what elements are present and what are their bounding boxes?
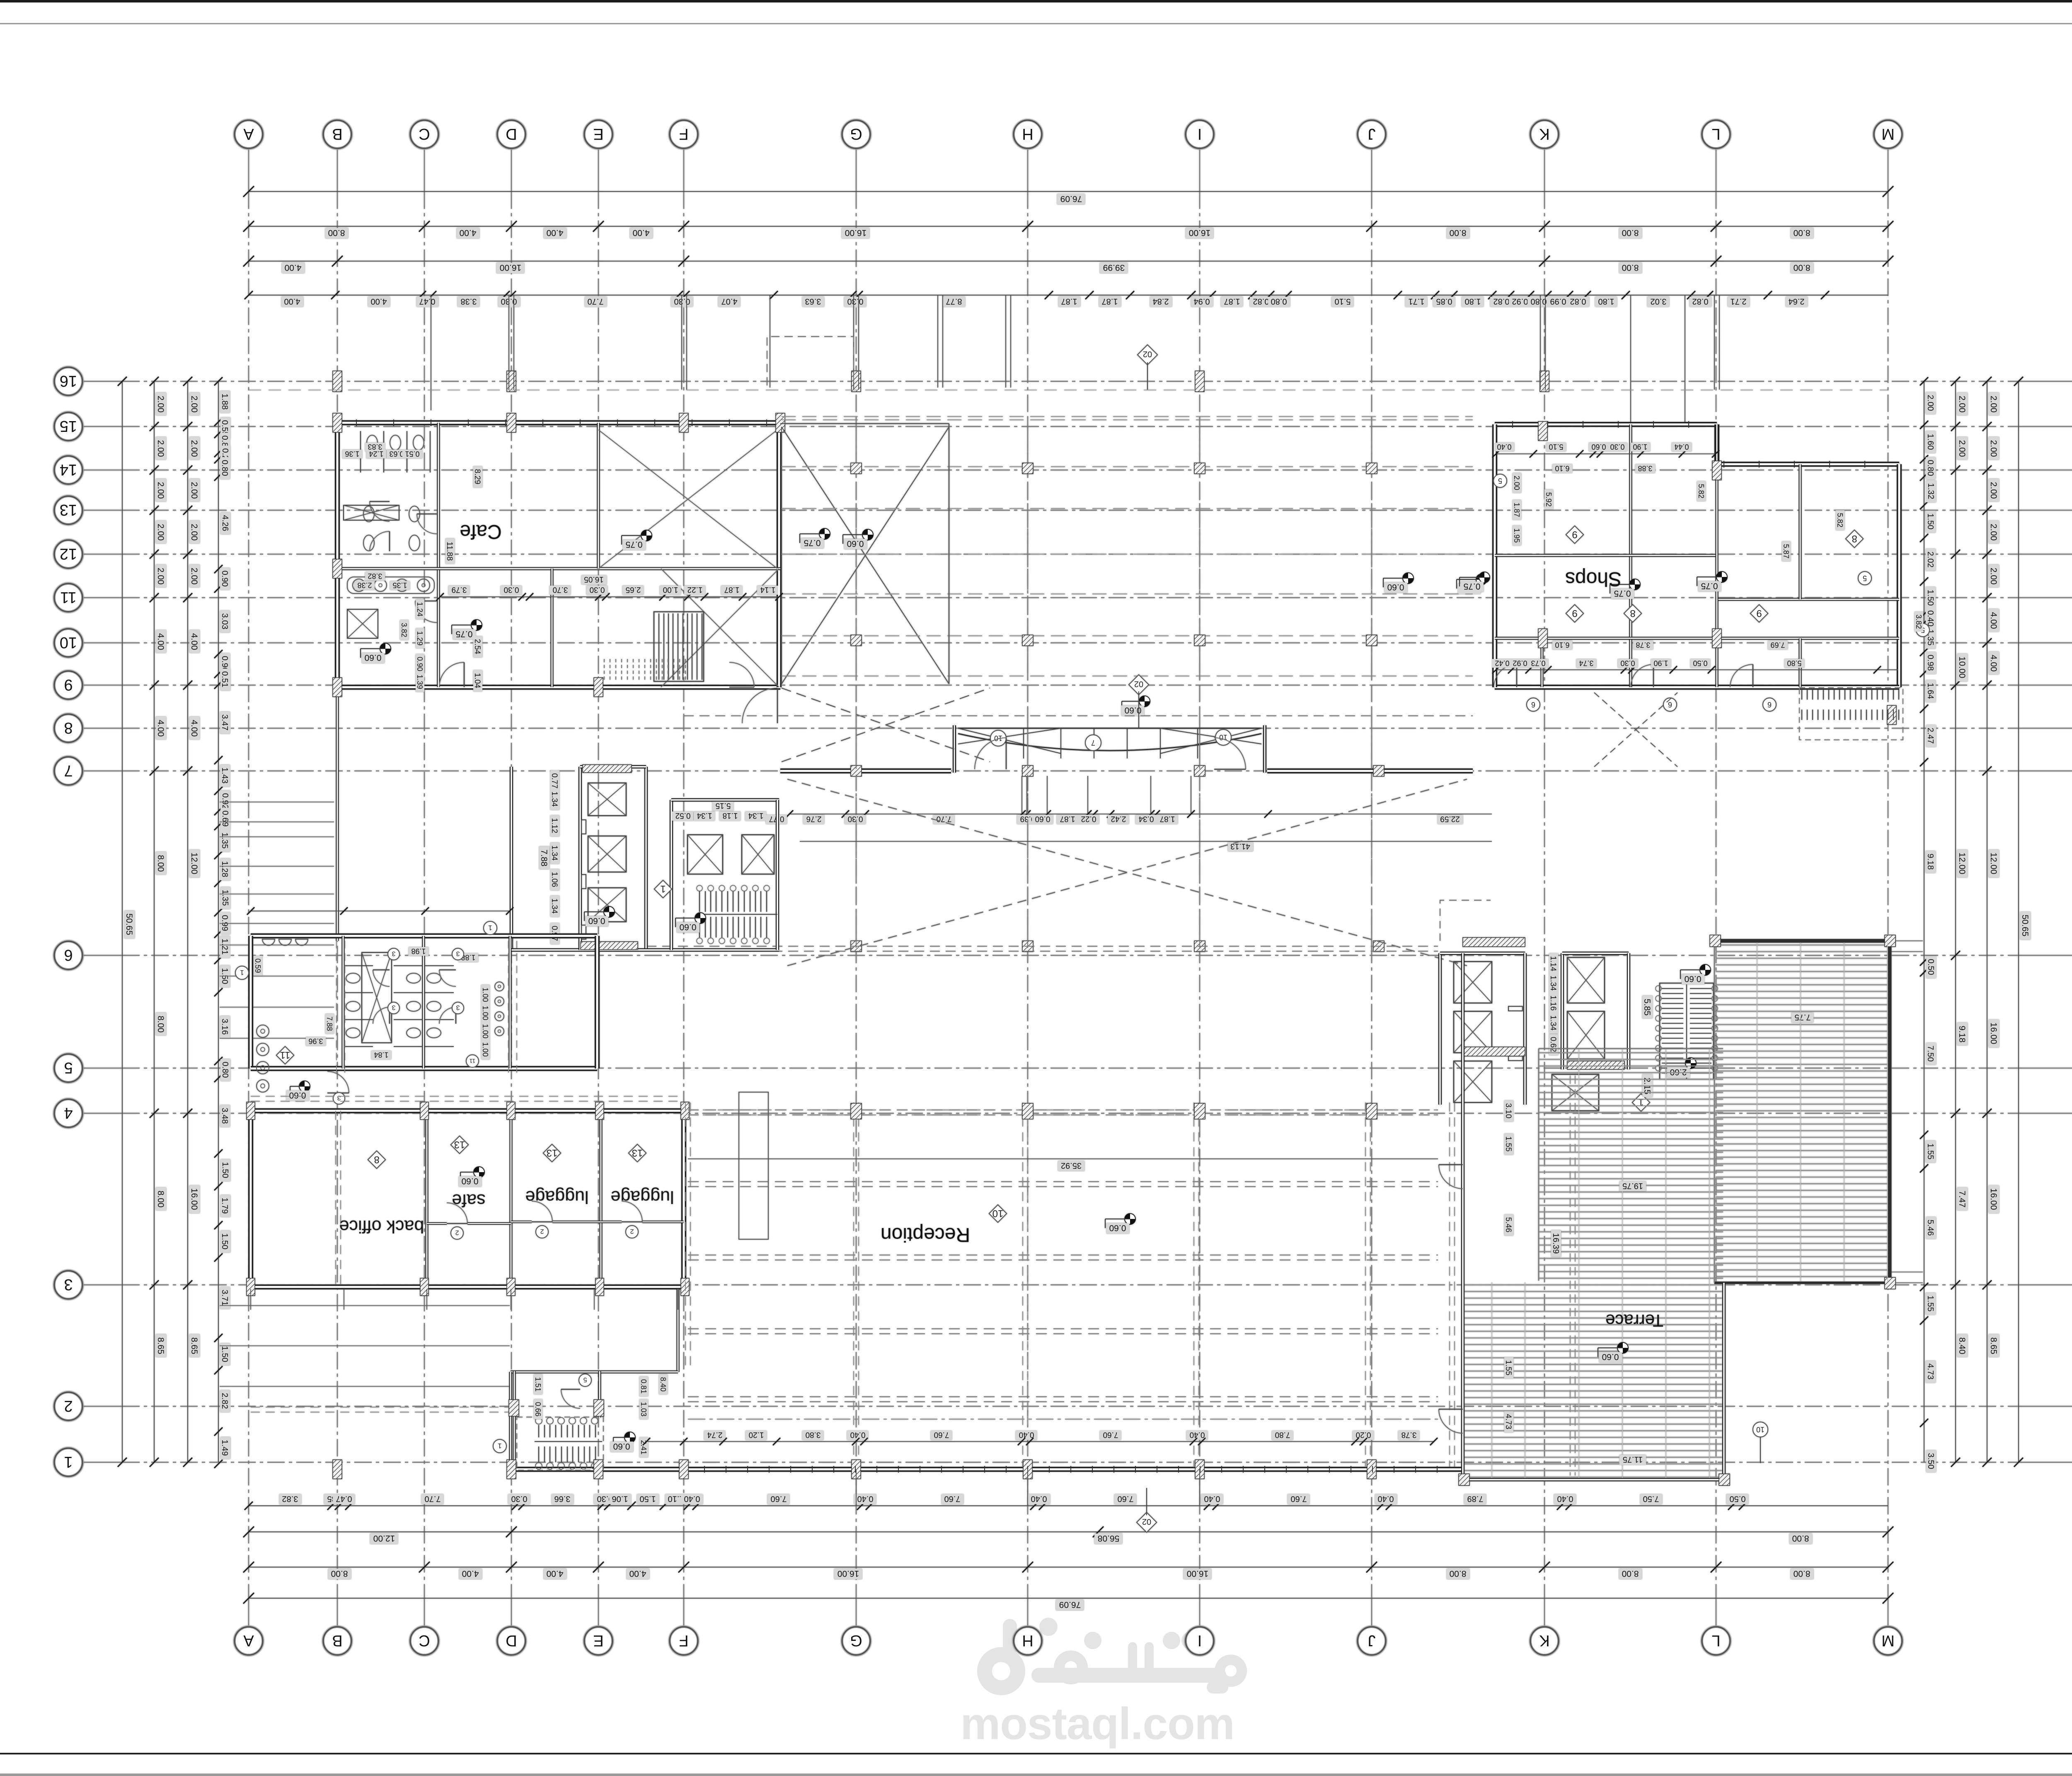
bubble E top xyxy=(584,120,612,148)
bubble 13 left xyxy=(54,496,82,524)
svg-text:0.94: 0.94 xyxy=(1194,297,1210,306)
svg-text:0.40: 0.40 xyxy=(1926,611,1935,627)
svg-text:1.50: 1.50 xyxy=(220,1233,229,1250)
grid line 7 xyxy=(82,770,122,771)
cafe doors on south wall xyxy=(439,662,464,687)
svg-text:3.50: 3.50 xyxy=(1926,1453,1935,1469)
svg-text:1.21: 1.21 xyxy=(220,939,229,955)
right core elevators col2 xyxy=(1561,953,1564,1069)
svg-text:8: 8 xyxy=(374,1154,379,1165)
svg-text:4.00: 4.00 xyxy=(156,633,165,650)
svg-text:0.60: 0.60 xyxy=(1591,443,1606,451)
bubble D bottom xyxy=(497,1627,525,1655)
deck plank joints xyxy=(1757,943,1757,1282)
roof dashed line row 16 xyxy=(249,390,1888,390)
terrace west dashed pair xyxy=(1449,1102,1450,1476)
corridor hatch columns xyxy=(851,1103,862,1119)
svg-text:2.74: 2.74 xyxy=(707,1430,722,1439)
svg-text:1.35: 1.35 xyxy=(220,833,229,849)
svg-text:5.10: 5.10 xyxy=(1549,443,1563,451)
svg-text:7: 7 xyxy=(1091,739,1095,747)
svg-text:0.47: 0.47 xyxy=(336,1494,352,1503)
bubble 4 left xyxy=(54,1099,82,1127)
left core elevators xyxy=(588,783,626,816)
svg-text:7.70: 7.70 xyxy=(588,297,604,306)
svg-text:0.30: 0.30 xyxy=(590,585,605,594)
bubble E bottom xyxy=(584,1627,612,1655)
atrium ceiling dashed grid verticals xyxy=(856,417,857,962)
svg-text:D: D xyxy=(506,125,517,143)
canopy level marker xyxy=(1139,696,1150,707)
svg-text:1.04: 1.04 xyxy=(473,673,482,688)
bubble 16 left xyxy=(54,367,82,395)
svg-text:C: C xyxy=(419,125,430,143)
sheet bottom border bar xyxy=(0,1774,2072,1776)
svg-text:0.22: 0.22 xyxy=(1081,814,1097,823)
svg-text:1.98: 1.98 xyxy=(411,947,426,955)
svg-text:5.10: 5.10 xyxy=(1335,297,1351,306)
grid line 16 xyxy=(82,381,122,382)
svg-text:10.00: 10.00 xyxy=(1957,657,1967,678)
svg-text:11.88: 11.88 xyxy=(445,542,454,561)
svg-text:1.18: 1.18 xyxy=(723,811,738,820)
svg-text:3.96: 3.96 xyxy=(308,1037,323,1045)
office diamonds xyxy=(368,1151,385,1168)
svg-text:8.40: 8.40 xyxy=(659,1377,667,1391)
svg-text:8.00: 8.00 xyxy=(156,855,165,872)
svg-text:0.51: 0.51 xyxy=(220,671,229,688)
gap stair void dashed X xyxy=(782,427,949,684)
svg-text:1.55: 1.55 xyxy=(1504,1360,1513,1376)
cafe level markers xyxy=(641,530,652,541)
svg-text:1.24: 1.24 xyxy=(416,602,424,616)
svg-text:5.82: 5.82 xyxy=(1697,484,1705,498)
sheet top rule xyxy=(0,23,2072,24)
svg-text:14: 14 xyxy=(60,461,77,478)
toilet crossed bench xyxy=(344,505,399,520)
grid line 12 xyxy=(82,554,122,555)
svg-text:7.50: 7.50 xyxy=(1643,1494,1659,1503)
svg-text:16.39: 16.39 xyxy=(1551,1233,1560,1254)
left dimension column 2 xyxy=(154,381,155,1462)
svg-text:13: 13 xyxy=(454,1139,465,1150)
core diamonds and markers xyxy=(654,880,672,898)
office block leaders xyxy=(250,1289,251,1310)
left dim leader lines into building xyxy=(220,802,334,802)
shops internal walls xyxy=(1629,424,1632,687)
toilet stalls room 1 xyxy=(344,965,373,966)
bubble H bottom xyxy=(1014,1627,1042,1655)
svg-text:3: 3 xyxy=(456,1004,460,1011)
bottom-left dashed pair xyxy=(251,1407,510,1408)
svg-text:7.60: 7.60 xyxy=(1291,1494,1307,1503)
sheet top border bar xyxy=(0,0,2072,2)
svg-text:7.60: 7.60 xyxy=(1103,1430,1118,1439)
atrium gap east wall xyxy=(949,424,950,684)
svg-text:2.00: 2.00 xyxy=(156,396,165,413)
svg-text:0.75: 0.75 xyxy=(1464,582,1481,591)
svg-text:D: D xyxy=(506,1632,517,1649)
svg-text:7.88: 7.88 xyxy=(325,1016,334,1031)
svg-text:8.00: 8.00 xyxy=(1794,228,1811,237)
svg-text:1.71: 1.71 xyxy=(1409,297,1425,306)
bubble G top xyxy=(842,120,870,148)
section line 02 top xyxy=(1138,345,1157,365)
svg-text:4.00: 4.00 xyxy=(460,228,477,237)
reception west dashed pair xyxy=(685,1102,686,1368)
grid line 11 xyxy=(82,597,122,598)
svg-text:1.00: 1.00 xyxy=(481,1042,489,1056)
svg-text:8.65: 8.65 xyxy=(1989,1337,1998,1354)
svg-text:8.00: 8.00 xyxy=(1450,1569,1467,1578)
bubble 1 left xyxy=(54,1448,82,1476)
svg-text:0.40: 0.40 xyxy=(1031,1494,1047,1503)
svg-text:76.09: 76.09 xyxy=(1059,1600,1081,1609)
bottom stair walls xyxy=(513,1371,516,1476)
cafe stair UP treads xyxy=(654,612,704,681)
svg-text:M: M xyxy=(1881,125,1895,143)
shops block outer walls xyxy=(1495,422,1717,427)
svg-text:3.16: 3.16 xyxy=(220,1019,229,1035)
left dimension column 3 xyxy=(187,381,188,1462)
grid line F xyxy=(683,148,684,191)
grid line C xyxy=(424,148,425,191)
urinals xyxy=(495,982,504,991)
stair core top dims xyxy=(672,811,693,821)
svg-text:K: K xyxy=(1539,125,1549,143)
svg-text:7.80: 7.80 xyxy=(1275,1430,1290,1439)
svg-text:0.80: 0.80 xyxy=(220,460,229,476)
svg-text:2.00: 2.00 xyxy=(1989,482,1998,499)
svg-text:0.60: 0.60 xyxy=(1109,1223,1126,1233)
svg-text:3.78: 3.78 xyxy=(1636,641,1650,649)
grid line 15 xyxy=(82,426,122,427)
svg-text:3.82: 3.82 xyxy=(1915,614,1923,629)
svg-text:0.60: 0.60 xyxy=(588,916,605,926)
svg-text:0.30: 0.30 xyxy=(848,814,863,823)
svg-text:11.75: 11.75 xyxy=(1623,1455,1643,1464)
svg-text:1.14: 1.14 xyxy=(1549,956,1557,972)
svg-text:Cafe: Cafe xyxy=(460,521,501,543)
atrium dashed boundary lines xyxy=(684,715,1473,716)
bubble A bottom xyxy=(235,1627,263,1655)
office lvl + hatches xyxy=(474,1167,484,1178)
svg-text:2.64: 2.64 xyxy=(1789,297,1805,306)
bubble L bottom xyxy=(1702,1627,1730,1655)
reception floor dashed lines xyxy=(688,1110,1438,1110)
svg-text:0.63: 0.63 xyxy=(389,450,404,458)
stair treads numbered xyxy=(699,891,700,912)
svg-text:2.42: 2.42 xyxy=(1111,814,1126,823)
svg-text:1.88: 1.88 xyxy=(220,394,229,410)
grid line L xyxy=(1716,148,1716,191)
svg-text:2.65: 2.65 xyxy=(626,585,641,594)
office dashed divider xyxy=(335,1111,336,1287)
bubble 10 left xyxy=(54,629,82,657)
svg-text:16.05: 16.05 xyxy=(584,575,604,584)
bubble 3 left xyxy=(54,1271,82,1299)
bubble 9 left xyxy=(54,671,82,699)
svg-text:2.82: 2.82 xyxy=(220,1393,229,1409)
grid line 10 xyxy=(82,642,122,643)
south curtain wall mullions xyxy=(704,1466,705,1473)
svg-text:3.80: 3.80 xyxy=(806,1430,821,1439)
svg-text:7.60: 7.60 xyxy=(771,1494,787,1503)
grid line G xyxy=(856,148,857,191)
shops interior dim rows xyxy=(1494,443,1514,451)
svg-text:0.73: 0.73 xyxy=(1531,659,1545,667)
svg-text:9: 9 xyxy=(1572,608,1577,619)
left dimension column total 50.65 xyxy=(122,381,123,1462)
svg-text:8.00: 8.00 xyxy=(331,1569,348,1578)
bubble H top xyxy=(1014,120,1042,148)
svg-text:4.00: 4.00 xyxy=(462,1569,479,1578)
svg-text:16: 16 xyxy=(60,372,77,390)
svg-text:3.82: 3.82 xyxy=(368,572,382,580)
svg-text:1: 1 xyxy=(660,883,666,894)
svg-text:8.29: 8.29 xyxy=(473,469,482,485)
svg-text:8.00: 8.00 xyxy=(1794,1569,1811,1578)
svg-text:1.55: 1.55 xyxy=(1926,1296,1935,1312)
svg-text:0.50: 0.50 xyxy=(1926,959,1935,975)
svg-text:I: I xyxy=(1198,125,1202,143)
svg-text:Shops: Shops xyxy=(1565,568,1622,590)
svg-text:7.50: 7.50 xyxy=(1926,1046,1935,1062)
grid line 14 xyxy=(82,470,122,470)
svg-text:0.75: 0.75 xyxy=(804,538,821,548)
svg-text:3: 3 xyxy=(337,1094,341,1101)
terrace hatched wall strip xyxy=(1463,1047,1525,1056)
svg-text:4.00: 4.00 xyxy=(547,1569,564,1578)
cafe second void X xyxy=(661,569,779,687)
svg-text:0.30: 0.30 xyxy=(1620,659,1635,667)
svg-text:8.00: 8.00 xyxy=(1794,263,1811,272)
reception markers xyxy=(989,1205,1007,1222)
svg-text:7.70: 7.70 xyxy=(425,1494,441,1503)
svg-text:02: 02 xyxy=(1134,679,1143,688)
svg-text:8: 8 xyxy=(1852,533,1857,544)
svg-text:5: 5 xyxy=(1498,477,1502,485)
svg-text:12.00: 12.00 xyxy=(373,1534,395,1543)
svg-text:0.60: 0.60 xyxy=(365,653,382,662)
svg-text:4.00: 4.00 xyxy=(189,720,199,737)
svg-text:2: 2 xyxy=(64,1397,73,1415)
svg-text:1.55: 1.55 xyxy=(1504,1136,1513,1152)
svg-text:8.00: 8.00 xyxy=(156,1016,165,1033)
right dim leader lines xyxy=(1891,940,1923,941)
svg-text:H: H xyxy=(1022,125,1033,143)
svg-text:3.83: 3.83 xyxy=(368,443,382,451)
entrance canopy truss chords xyxy=(958,728,1261,729)
grid line A xyxy=(248,148,249,191)
svg-text:0.75: 0.75 xyxy=(1701,581,1718,591)
svg-text:0.52: 0.52 xyxy=(675,811,691,820)
svg-text:2: 2 xyxy=(630,1228,634,1235)
svg-text:12.00: 12.00 xyxy=(189,853,199,875)
bubble K bottom xyxy=(1530,1627,1559,1655)
svg-text:7.70: 7.70 xyxy=(937,814,952,823)
svg-text:C: C xyxy=(419,1632,430,1649)
svg-text:02: 02 xyxy=(1142,1517,1151,1526)
svg-text:8.65: 8.65 xyxy=(189,1337,199,1354)
svg-text:4.26: 4.26 xyxy=(220,515,230,531)
svg-text:0.60: 0.60 xyxy=(1387,582,1404,592)
svg-text:3.63: 3.63 xyxy=(805,297,821,306)
svg-text:G: G xyxy=(850,1632,862,1649)
watermark mostaql logo xyxy=(977,1618,1247,1695)
toilet door arcs xyxy=(373,970,390,986)
svg-text:0.82: 0.82 xyxy=(1493,297,1510,306)
bottom stair door xyxy=(561,1389,580,1408)
svg-text:0.80: 0.80 xyxy=(220,1062,230,1078)
grid line K xyxy=(1544,148,1545,191)
svg-text:1.34: 1.34 xyxy=(748,811,763,820)
svg-text:0.80: 0.80 xyxy=(1271,297,1287,306)
svg-text:L: L xyxy=(1711,1632,1720,1649)
bubble 15 left xyxy=(54,412,82,441)
svg-text:3.74: 3.74 xyxy=(1579,659,1593,667)
shops doors xyxy=(1494,664,1517,687)
svg-text:8.00: 8.00 xyxy=(1622,228,1639,237)
svg-text:39.99: 39.99 xyxy=(1103,263,1125,272)
entrance end posts xyxy=(953,725,956,773)
svg-text:22.59: 22.59 xyxy=(1440,814,1460,823)
svg-text:8.00: 8.00 xyxy=(156,1191,165,1208)
svg-text:M: M xyxy=(1881,1632,1895,1649)
svg-text:6: 6 xyxy=(64,946,73,964)
top dimension row 3 xyxy=(249,261,1888,262)
toilet stalls mid rows xyxy=(363,506,374,522)
svg-text:1.14: 1.14 xyxy=(760,585,775,594)
svg-text:6.10: 6.10 xyxy=(1555,464,1569,472)
canopy dashed outline above entrance xyxy=(767,337,854,385)
terrace door arcs xyxy=(1439,1165,1463,1189)
svg-text:1.80: 1.80 xyxy=(1598,297,1615,306)
svg-text:1.87: 1.87 xyxy=(1513,502,1521,517)
svg-text:0.66: 0.66 xyxy=(534,1402,542,1416)
south wall leader ticks xyxy=(856,1469,857,1506)
svg-text:0.82: 0.82 xyxy=(1692,297,1709,306)
svg-text:8.00: 8.00 xyxy=(1450,228,1467,237)
svg-text:1.28: 1.28 xyxy=(220,861,229,877)
janitor crossed box xyxy=(347,609,378,638)
right core walls xyxy=(1438,953,1442,1105)
svg-text:1: 1 xyxy=(488,924,492,932)
svg-text:3.03: 3.03 xyxy=(220,613,229,630)
janitor sink column xyxy=(257,1025,269,1037)
atrium hatch columns G-J rows 7 and 6 xyxy=(851,766,862,776)
grid line 4 xyxy=(82,1113,122,1114)
svg-text:1.50: 1.50 xyxy=(1926,514,1935,530)
svg-text:luggage: luggage xyxy=(525,1187,588,1207)
reception corner dashed step xyxy=(1440,900,1491,941)
svg-text:0.62: 0.62 xyxy=(1549,1037,1557,1052)
svg-text:0.30: 0.30 xyxy=(504,585,519,594)
bottom dimension row detail xyxy=(249,1505,1888,1506)
svg-text:16.00: 16.00 xyxy=(189,1188,199,1210)
svg-text:5.85: 5.85 xyxy=(1642,999,1652,1016)
grid line 2 xyxy=(82,1406,122,1407)
svg-text:6: 6 xyxy=(1531,700,1535,709)
svg-text:0.92: 0.92 xyxy=(1512,297,1528,306)
svg-text:0.40: 0.40 xyxy=(850,1430,866,1439)
svg-text:6: 6 xyxy=(1668,700,1672,709)
svg-text:8.77: 8.77 xyxy=(946,297,962,306)
svg-text:0.75: 0.75 xyxy=(456,629,473,639)
svg-text:5: 5 xyxy=(1863,574,1867,582)
svg-text:2.00: 2.00 xyxy=(1989,396,1998,413)
bottom dimension row 3 xyxy=(249,1567,1888,1568)
entrance end circles 10 xyxy=(990,730,1006,746)
svg-text:5.87: 5.87 xyxy=(1782,544,1790,558)
svg-text:8.00: 8.00 xyxy=(1622,1569,1639,1578)
right dimension column 2 xyxy=(1955,381,1956,1462)
svg-text:0.40: 0.40 xyxy=(1190,1430,1205,1439)
toilets block outer walls xyxy=(251,933,597,938)
bubble 14 left xyxy=(54,456,82,484)
svg-text:back office: back office xyxy=(339,1216,424,1236)
svg-text:3.47: 3.47 xyxy=(220,715,229,731)
upper deck label xyxy=(1791,1013,1813,1022)
svg-text:G: G xyxy=(850,125,862,143)
svg-text:11: 11 xyxy=(470,1058,476,1064)
terrace inner dashed pair xyxy=(1570,1076,1571,1476)
svg-text:1.79: 1.79 xyxy=(220,1198,229,1214)
svg-text:B: B xyxy=(332,125,342,143)
bottom stair treads upper xyxy=(538,1425,539,1437)
svg-text:2.00: 2.00 xyxy=(1989,524,1998,541)
svg-text:0.30: 0.30 xyxy=(511,1494,528,1503)
bubble F top xyxy=(670,120,698,148)
shops exterior stair xyxy=(1801,689,1802,700)
leader walls from top dim row to building xyxy=(508,295,509,390)
svg-text:1.60: 1.60 xyxy=(1926,434,1935,450)
svg-text:3.82: 3.82 xyxy=(282,1494,298,1503)
interior dim line shops row xyxy=(1496,453,1716,454)
svg-text:0.44: 0.44 xyxy=(1674,443,1689,451)
svg-text:0.82: 0.82 xyxy=(1253,297,1269,306)
reception dashed verticals xyxy=(853,1102,854,1467)
svg-text:2.00: 2.00 xyxy=(156,524,165,541)
right stair numbered xyxy=(1660,983,1714,1079)
svg-text:2.00: 2.00 xyxy=(1989,440,1998,457)
svg-text:1.34: 1.34 xyxy=(1549,976,1557,991)
bubble C bottom xyxy=(410,1627,438,1655)
svg-text:1.00: 1.00 xyxy=(663,585,678,594)
svg-text:E: E xyxy=(593,125,603,143)
svg-text:1.43: 1.43 xyxy=(220,768,229,784)
svg-text:3.02: 3.02 xyxy=(1651,297,1667,306)
canopy dim row xyxy=(789,814,1492,814)
svg-text:76.09: 76.09 xyxy=(1060,194,1082,204)
svg-text:2.00: 2.00 xyxy=(189,482,199,499)
svg-text:0.30: 0.30 xyxy=(1610,443,1624,451)
svg-text:5.92: 5.92 xyxy=(1544,492,1553,506)
svg-text:1.34: 1.34 xyxy=(550,846,559,861)
svg-text:J: J xyxy=(1368,1632,1376,1649)
svg-text:8: 8 xyxy=(1630,608,1635,619)
bubble 7 left xyxy=(54,757,82,785)
entrance diamond 7 xyxy=(1085,735,1101,751)
svg-text:50.65: 50.65 xyxy=(2020,915,2030,937)
svg-text:1.34: 1.34 xyxy=(550,899,559,914)
entrance walls xyxy=(780,768,951,773)
interior dim line cafe row xyxy=(440,596,779,597)
bubble L top xyxy=(1702,120,1730,148)
corridor dashed pair xyxy=(251,1096,684,1097)
svg-text:3.71: 3.71 xyxy=(220,1290,229,1306)
bubble M top xyxy=(1874,120,1902,148)
